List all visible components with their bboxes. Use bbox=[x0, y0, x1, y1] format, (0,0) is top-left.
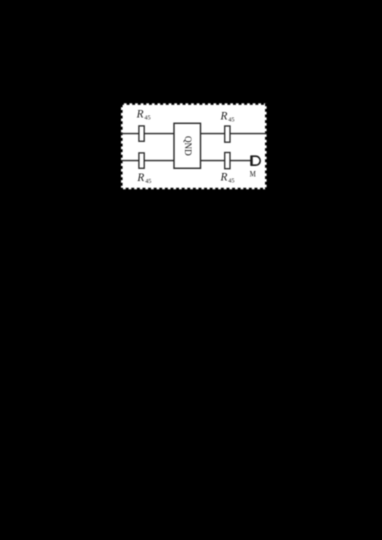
figure panel (white box with dashed border) bbox=[121, 103, 267, 189]
wire: top rail (mode a) bbox=[121, 133, 267, 135]
svg-text:M: M bbox=[250, 170, 257, 179]
svg-text:R: R bbox=[136, 172, 144, 184]
QND box U1 bbox=[174, 123, 201, 168]
svg-text:45: 45 bbox=[228, 116, 234, 123]
svg-text:45: 45 bbox=[228, 178, 234, 185]
svg-text:R: R bbox=[220, 172, 228, 184]
resistor-style gate R45 top-right bbox=[225, 126, 230, 142]
resistor-style gate R45 bottom-right bbox=[225, 153, 230, 169]
svg-text:45: 45 bbox=[145, 178, 151, 185]
resistor-style gate R45 top-left bbox=[139, 126, 144, 141]
svg-text:R: R bbox=[220, 110, 228, 122]
svg-text:R: R bbox=[136, 109, 144, 121]
detector D (photodetector on bottom rail) bbox=[252, 156, 261, 166]
svg-text:QND: QND bbox=[183, 136, 193, 156]
resistor-style gate R45 bottom-left bbox=[139, 153, 144, 168]
wire: bottom rail (mode b) bbox=[121, 160, 251, 162]
svg-text:45: 45 bbox=[144, 114, 150, 121]
